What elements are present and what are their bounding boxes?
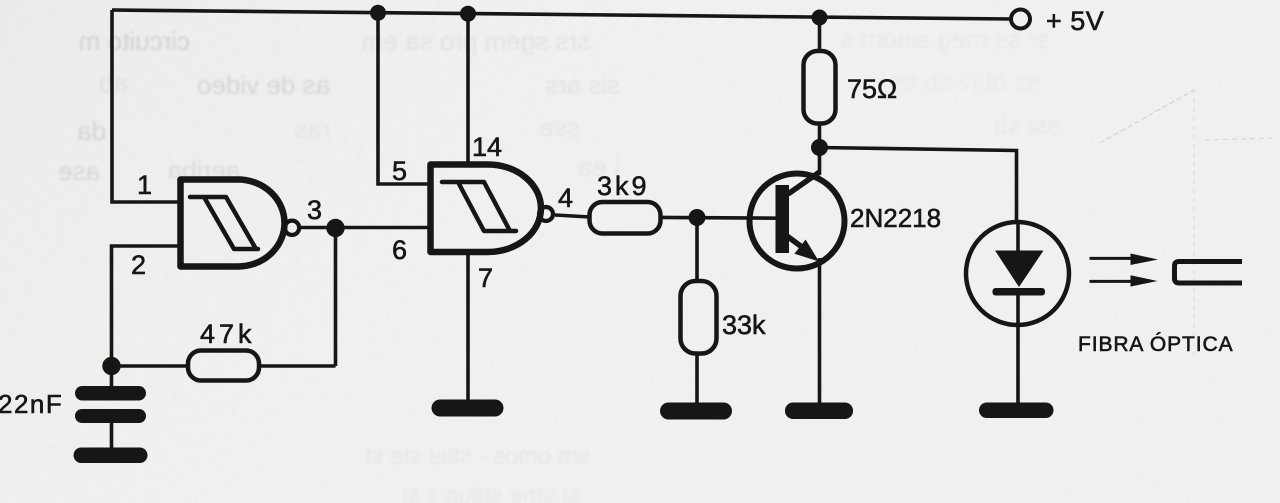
wire 33k to ground xyxy=(695,353,699,404)
crease line vertical xyxy=(1193,90,1195,360)
svg-text:6: 6 xyxy=(392,235,407,265)
svg-text:3k9: 3k9 xyxy=(597,171,650,201)
svg-text:as de video: as de video xyxy=(197,70,330,100)
wire node to 47k xyxy=(112,364,190,368)
nand gate U1b xyxy=(431,165,541,253)
transistor Q1 2N2218 xyxy=(750,172,845,269)
bleed-through text line 3 xyxy=(77,110,1060,146)
wire pin5 from rail xyxy=(378,12,431,184)
resistor 33k xyxy=(681,281,717,354)
ground G4 xyxy=(979,403,1054,419)
wire 3k9 to base xyxy=(660,216,776,220)
wire rail to 75R xyxy=(818,17,822,52)
svg-text:33k: 33k xyxy=(722,310,766,340)
svg-text:1: 1 xyxy=(137,170,152,200)
node feedback junction xyxy=(326,219,344,237)
bleed-through text line 2 xyxy=(99,66,1040,100)
wire emitter to ground xyxy=(818,258,822,404)
crease line horizontal xyxy=(1205,138,1272,140)
svg-text:sm omos - stiel ste st: sm omos - stiel ste st xyxy=(364,443,590,470)
svg-text:7: 7 xyxy=(478,263,493,293)
resistor 75R xyxy=(804,51,836,124)
wire junction to 33k xyxy=(695,218,699,283)
resistor 47k xyxy=(188,351,259,381)
ground cap xyxy=(74,448,148,464)
node rail-pin5 xyxy=(370,5,386,21)
ground G1 xyxy=(432,400,504,417)
svg-text:14: 14 xyxy=(472,132,502,162)
bleed-through text bottom 2 xyxy=(401,482,580,503)
svg-text:2N2218: 2N2218 xyxy=(850,203,941,233)
wire pin2 to RC node xyxy=(112,246,182,366)
svg-text:3: 3 xyxy=(307,195,322,225)
svg-text:ase: ase xyxy=(58,156,100,186)
bleed-through text line 4 xyxy=(58,152,620,186)
svg-text:2: 2 xyxy=(131,250,146,280)
resistor 3k9 xyxy=(590,202,661,234)
fiber ferrule xyxy=(1175,262,1243,284)
wire collector up xyxy=(818,147,822,175)
wire pin7 to ground xyxy=(466,252,470,402)
node collector junction xyxy=(811,139,828,156)
wire U1b output to R 3k9 xyxy=(555,215,590,217)
wire feedback vertical xyxy=(334,228,338,367)
svg-text:22nF: 22nF xyxy=(0,389,63,419)
wire U1a output to U1b pin6 xyxy=(300,226,431,230)
ground G3 xyxy=(785,403,853,420)
svg-text:75Ω: 75Ω xyxy=(847,74,897,104)
capacitor 22nF xyxy=(75,366,146,449)
wire pin1 from rail xyxy=(112,10,181,202)
light arrow lower xyxy=(1090,275,1158,286)
wire 75R to collector node xyxy=(818,123,822,148)
wire pin14 from rail xyxy=(466,13,470,166)
bubble U1b output xyxy=(539,207,553,221)
bleed-through text line 1 xyxy=(79,24,1050,56)
LED D1 xyxy=(966,222,1069,325)
bleed-through text bottom 1 xyxy=(364,443,590,470)
svg-text:sis ars: sis ars xyxy=(545,70,620,100)
node rail-pin14 xyxy=(460,6,476,22)
svg-text:srs sgem pro sa em: srs sgem pro sa em xyxy=(362,26,590,56)
svg-text:ras: ras xyxy=(294,114,330,144)
wire LED cathode to ground xyxy=(1016,294,1020,404)
svg-text:da: da xyxy=(77,116,106,146)
svg-text:+ 5V: + 5V xyxy=(1046,6,1104,36)
wire 47k to feedback xyxy=(259,364,336,368)
ground G2 xyxy=(660,403,732,420)
svg-text:47k: 47k xyxy=(200,319,256,349)
terminal +5V xyxy=(1011,10,1030,29)
svg-text:st stne sttiup s st: st stne sttiup s st xyxy=(401,482,580,503)
svg-text:FIBRA ÓPTICA: FIBRA ÓPTICA xyxy=(1078,333,1234,356)
svg-text:ss obiv sb es: ss obiv sb es xyxy=(890,66,1040,96)
svg-text:sse: sse xyxy=(540,112,580,142)
svg-text:circuito m: circuito m xyxy=(79,26,190,56)
svg-text:5: 5 xyxy=(392,156,407,186)
crease line diagonal xyxy=(1100,90,1194,143)
light arrow upper xyxy=(1090,254,1159,266)
bubble U1a output xyxy=(285,221,299,235)
svg-text:4: 4 xyxy=(558,183,573,213)
wire collector node to LED xyxy=(820,148,1017,225)
nand gate U1a xyxy=(181,180,285,267)
node rail-75R xyxy=(812,10,828,26)
node base junction xyxy=(689,209,706,226)
node RC junction xyxy=(102,357,120,375)
wire +5V top rail xyxy=(112,10,1011,19)
svg-text:ssi sb: ssi sb xyxy=(994,110,1060,140)
